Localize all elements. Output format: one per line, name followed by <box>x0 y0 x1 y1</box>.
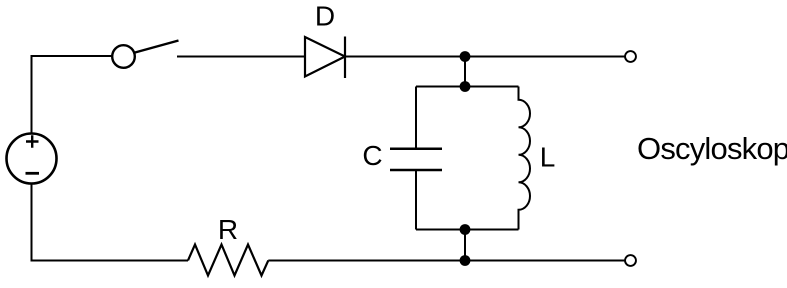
svg-text:C: C <box>362 140 382 171</box>
node junction tank top <box>460 81 471 92</box>
resistor R <box>188 245 268 276</box>
node junction top main <box>460 51 471 62</box>
node junction tank bottom <box>460 224 471 235</box>
svg-text:L: L <box>540 141 556 172</box>
svg-text:R: R <box>218 214 238 245</box>
wire tank bottom to main bottom <box>464 230 466 261</box>
wire capacitor top lead <box>415 87 417 149</box>
svg-text:Oscyloskop: Oscyloskop <box>637 131 787 166</box>
wire switch to diode <box>177 56 305 58</box>
wire top-left from source to switch <box>32 56 113 134</box>
switch S1 <box>112 41 178 68</box>
wire diode to top terminal <box>345 56 625 58</box>
wire tank bottom rail <box>416 229 519 231</box>
capacitor C <box>390 149 442 170</box>
inductor L <box>519 87 531 230</box>
voltage source V1 <box>7 134 57 184</box>
wire resistor to bottom terminal <box>268 260 625 262</box>
svg-text:D: D <box>315 1 335 32</box>
wire source down to bottom rail <box>32 184 189 261</box>
wire capacitor bottom lead <box>415 171 417 230</box>
node junction bottom main <box>460 255 471 266</box>
wire junction down to tank top <box>464 57 466 87</box>
terminal bottom output <box>625 255 636 266</box>
terminal top output <box>625 51 636 62</box>
diode D <box>305 37 345 79</box>
wire tank top rail <box>416 86 519 88</box>
